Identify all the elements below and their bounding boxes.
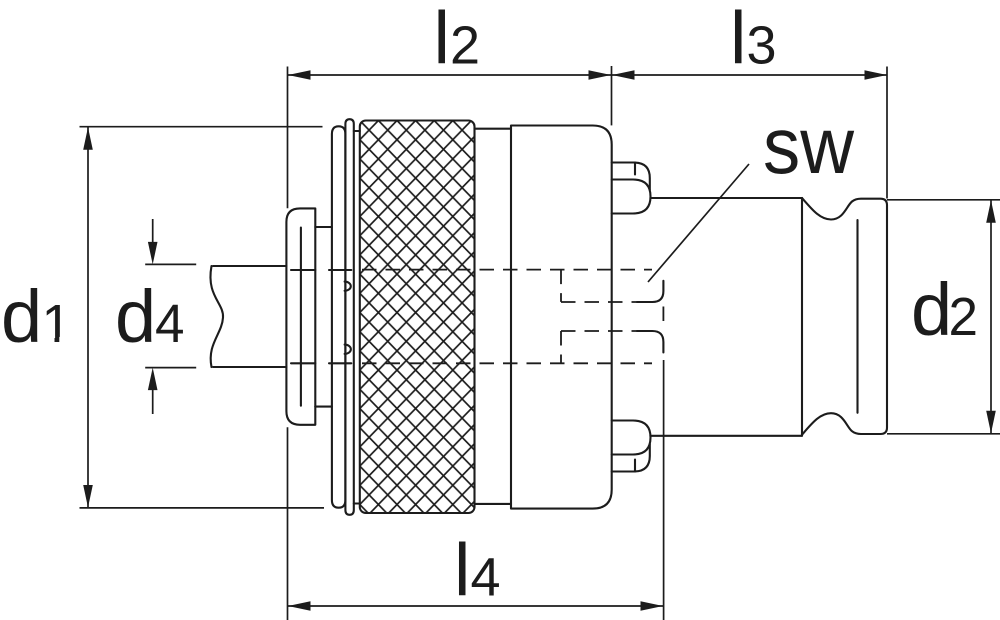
detent bump upper (345, 282, 351, 291)
dimension line l3 (612, 74, 887, 76)
dimension d1 extension line top (80, 126, 323, 128)
dimension d1 extension line bottom (80, 507, 325, 509)
svg-text:4: 4 (155, 294, 185, 354)
shaft break wavy line (210, 266, 223, 367)
socket hidden line lower (561, 330, 637, 332)
strip2 to knurl shoulder top (354, 130, 360, 132)
bore line solid segment lower left (291, 362, 351, 364)
dimension d2 extension line bottom (887, 433, 1000, 435)
end flange with groove (802, 198, 887, 435)
socket end hidden vertical (662, 307, 664, 328)
dimension l2 extension line left (287, 67, 289, 209)
svg-text:d: d (911, 268, 952, 351)
dimension line d2 (990, 200, 992, 433)
svg-text:3: 3 (747, 16, 777, 76)
main body outline (511, 126, 612, 509)
shoulder section top edge (475, 128, 512, 130)
dimension d2 extension line top (887, 199, 1000, 201)
svg-text:l: l (454, 529, 470, 612)
dimension l3 extension line right (886, 67, 888, 199)
socket corner lower (637, 331, 663, 353)
shoulder section bottom edge (475, 503, 512, 505)
d4 arrow stem bottom (152, 390, 154, 414)
dimension d4 extension line top (145, 263, 196, 265)
arrow l2 left (288, 70, 311, 79)
bore hidden line bottom (362, 362, 652, 364)
arrow l4 left (288, 601, 311, 610)
sw leader line (648, 164, 749, 282)
arrow d2 top (986, 200, 996, 223)
collar to ring connector bottom (315, 406, 332, 408)
dimension l2/l3 extension line middle (611, 66, 613, 125)
dimension line d1 (87, 127, 89, 507)
top lug D tab (612, 180, 651, 214)
arrow d4 top (148, 242, 158, 265)
detent bump lower (345, 345, 351, 354)
arrow l3 left (612, 70, 635, 79)
shaft d4 top edge (213, 265, 286, 267)
svg-text:sw: sw (763, 101, 854, 190)
dimension line l2 (288, 74, 611, 76)
arrow l2 right (589, 70, 612, 79)
arrow d2 bottom (986, 411, 996, 434)
front collar outline (286, 208, 315, 424)
dimension l4 extension line left (287, 427, 289, 620)
neck right boundary (801, 198, 803, 436)
strip2 to knurl shoulder bottom (354, 502, 360, 504)
svg-text:2: 2 (949, 287, 979, 347)
bore hidden line top (362, 269, 652, 271)
shaft d4 bottom edge (213, 366, 286, 368)
dimension line l4 (288, 605, 663, 607)
dimension d4 extension line bottom (145, 367, 196, 369)
socket hidden face verticals (560, 270, 562, 364)
ring strip 1 (d1 ring) (332, 126, 346, 507)
svg-text:4: 4 (471, 548, 501, 608)
collar inner line (300, 228, 302, 406)
socket corner upper (637, 281, 663, 302)
bore line solid segment upper left (291, 269, 351, 271)
arrow d1 bottom (83, 485, 93, 508)
svg-text:l: l (730, 0, 746, 80)
bottom lug lower tab (612, 444, 650, 472)
top lug tick (634, 163, 636, 175)
dimension l4 extension line right (663, 360, 665, 620)
neck cylinder bottom edge (651, 435, 803, 437)
knurled sleeve with cross hatch (360, 121, 475, 514)
arrow l4 right (641, 601, 664, 610)
arrow d4 bottom (148, 368, 158, 391)
neck cylinder top edge (651, 197, 803, 199)
top lug upper tab (612, 163, 650, 191)
svg-text:d: d (115, 275, 156, 358)
d4 arrow stem top (152, 219, 154, 242)
svg-text:d: d (1, 275, 42, 358)
arrow l3 right (865, 70, 888, 79)
svg-text:l: l (434, 0, 450, 80)
bottom lug D tab (612, 421, 651, 455)
ring strip 2 (345, 119, 353, 515)
arrow d1 top (83, 127, 93, 150)
flange left face line (856, 220, 858, 413)
socket hidden line upper (561, 301, 637, 303)
collar to ring connector top (315, 226, 332, 228)
svg-text:2: 2 (450, 16, 480, 76)
svg-text:1: 1 (42, 294, 72, 354)
bottom lug tick (634, 460, 636, 472)
